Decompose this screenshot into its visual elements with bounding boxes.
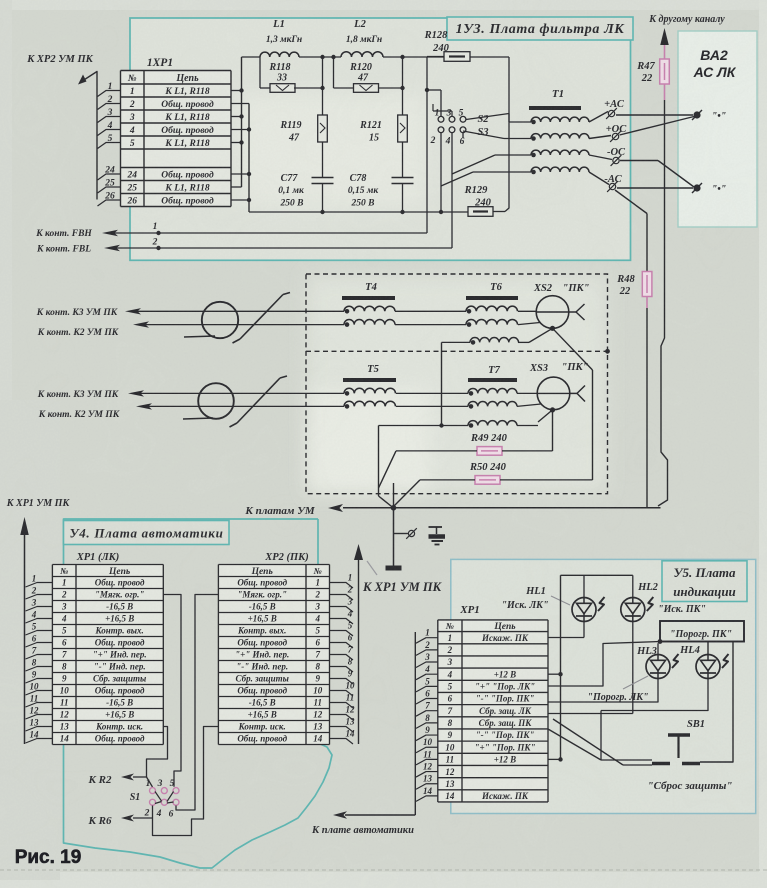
wire diagonal fan to SB1 <box>553 719 623 765</box>
XP2 (PK) pins and bus <box>358 560 360 744</box>
wire HL4 top to SB1 right <box>707 642 709 655</box>
wire T6 w3 right lead to XS2 <box>518 341 529 343</box>
inductor L1 1.3 mkGn <box>260 52 299 57</box>
wire HL3 bottom <box>548 679 658 703</box>
wire S2 pin3 feed <box>433 110 452 112</box>
resistor R47 22 (pink) <box>664 45 666 59</box>
twisted pair loop circle (bottom row) <box>198 383 234 419</box>
wire between T5 and T7 <box>396 392 468 394</box>
inductor L2 1.8 mkGn <box>341 52 383 57</box>
wire feed to S2 pin 1 <box>427 89 441 91</box>
wire table bus A (rows 1,3,5,25 to rail) <box>241 57 243 187</box>
crossing slash (top row) <box>240 295 283 340</box>
wire XP2 row2 to S1 pin6 <box>176 595 218 811</box>
wire node short vertical up <box>393 483 395 508</box>
wire R48 down to bottom horizontal <box>646 308 648 507</box>
board outline U4 (automation board) irregular teal blob <box>64 519 333 868</box>
crossing slash (bottom row) <box>237 378 280 423</box>
board outline BA2 teal box <box>678 31 757 227</box>
wire S3 pin4 stub down to FBL line <box>451 133 453 248</box>
wire top rail <box>242 56 261 58</box>
dashed box UM transformers section <box>306 274 608 494</box>
wire HL3 top maze <box>657 643 659 654</box>
wire T1 w2 left lead from pin6 <box>463 131 504 139</box>
capacitor C77 0.1mk 250V <box>312 177 334 179</box>
XP1 (LK) pins and bus <box>24 535 26 744</box>
wire T7 to XS3 <box>517 392 537 394</box>
bottom scan edge line <box>0 869 767 871</box>
board outline U5 (indication board) light blue box <box>451 559 756 813</box>
wire vertical junction L1/L2 to R119/C77 <box>322 57 324 177</box>
wire HL4 bottom <box>601 679 708 711</box>
XS2 fork symbol <box>576 304 585 312</box>
title box U4 Plata avtomatiki <box>64 521 230 545</box>
wire vertical from rail x427 down to FBH line <box>426 57 428 233</box>
wire S1 bottom U-loop to XP2 row13 <box>153 727 219 836</box>
capacitor C78 0.15mk 250V <box>392 177 414 179</box>
XP1 U5 pins and bus <box>414 632 416 815</box>
wire T6 w3 left lead down <box>442 341 471 343</box>
wire vertical after L2 to R121/C78 <box>402 57 404 177</box>
wire bottom rail (common) <box>249 211 468 213</box>
wire line A2 with arrow <box>128 390 144 396</box>
switch S2/S3 contact pins <box>438 116 444 122</box>
wire K kont FBL line 2 <box>104 245 120 251</box>
wire T1 w4 left lead <box>441 172 473 186</box>
wire T6 to XS2 <box>518 310 536 312</box>
wire XP1 row13 to S1 area <box>147 727 168 778</box>
label box Porogr PK <box>660 621 744 642</box>
resistor R48 22 (pink) <box>642 272 652 297</box>
wire vertical from R47 down right side <box>658 100 668 506</box>
wire XS2 bottom node <box>550 326 555 331</box>
board outline U3 (filter board) teal box <box>130 18 631 260</box>
node dot on dashed edge <box>605 349 610 354</box>
wire S3 pin6 <box>462 133 464 138</box>
wire table bus B (rows 2,4,24,26 to bottom rail) <box>248 104 250 213</box>
wire HL2 bottom down <box>632 622 634 714</box>
wire K kont FBH line 1 <box>102 230 118 236</box>
wire line B1 with arrow <box>133 321 149 327</box>
wire stub to connector o <box>394 533 409 535</box>
title box U5 Plata indikacii <box>662 561 747 602</box>
wire XS3 bottom node <box>550 407 555 412</box>
XS3 fork symbol <box>577 386 585 394</box>
wire R128 to T1 winding 1 <box>508 57 510 122</box>
dashed divider between T4/T6 and T5/T7 rows <box>306 350 608 352</box>
wire R49 leads <box>502 450 553 452</box>
wire HL1 bottom to row1 <box>583 622 585 638</box>
title box 1U3 Plata filtra LK <box>447 17 633 40</box>
wire T7 w3 left lead to vertical x378 <box>379 425 469 427</box>
wire R50 leads <box>500 479 593 481</box>
wire main horizontal to node <box>343 507 661 509</box>
wire line A1 with arrow <box>125 308 141 314</box>
BA2 terminal 1 <box>693 111 700 118</box>
wire T1 w1 left lead / from R128 <box>466 114 509 120</box>
wire XS3 down to R49 <box>552 410 554 451</box>
wire U5 +12V rail to HL1/HL2 tops <box>561 574 633 576</box>
wire between T4 and T6 <box>395 310 466 312</box>
wire S1 pin2 down to K R6 line <box>152 806 154 819</box>
wire from -AC connector down to R48 column <box>615 190 647 214</box>
wire T1 w3 left lead <box>452 155 495 174</box>
wire node down with terminal bar <box>393 508 395 566</box>
twisted pair loop circle (top row) <box>202 302 238 338</box>
BA2 terminal 2 <box>693 184 700 191</box>
wire S3 pin2 down to bottom rail <box>440 133 442 212</box>
wire XP1 row2 to S1 pin5 <box>163 595 181 787</box>
wire T7 w3 right lead to XS3 <box>517 425 538 427</box>
light patch inside dashed box <box>308 276 606 492</box>
wire XS2 to R50 branch diagonal <box>553 328 593 370</box>
label K plate avtomatiki with arrow <box>345 814 415 816</box>
ground symbol (chassis) <box>429 526 443 528</box>
wire line B2 with arrow <box>136 403 152 409</box>
